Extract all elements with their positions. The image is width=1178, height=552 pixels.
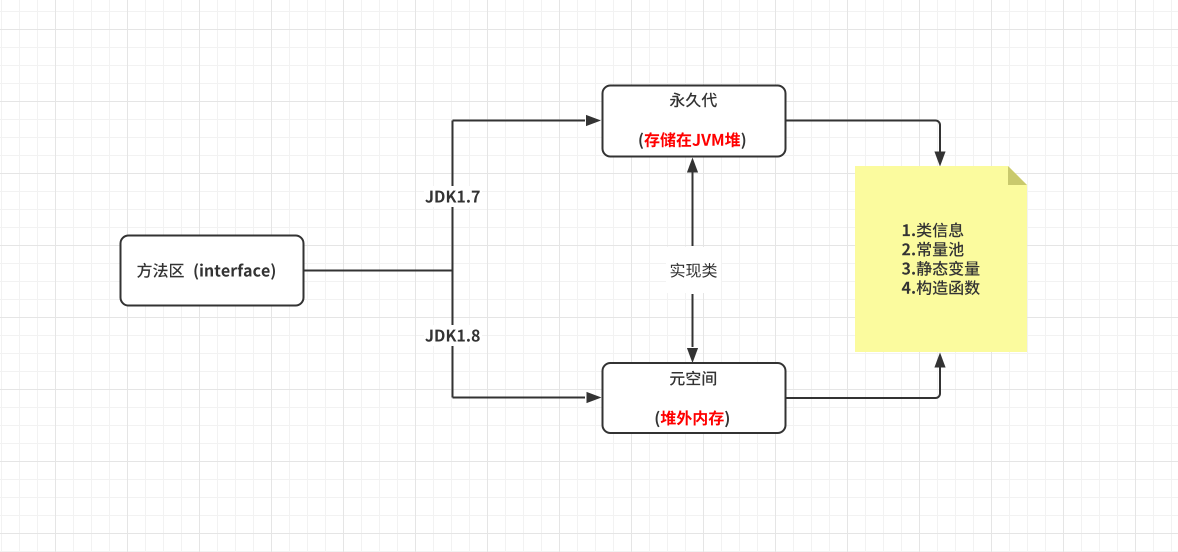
label JDK1.7 backing bbox=[424, 186, 482, 207]
arrowhead into 元空间 top (pointing down) bbox=[687, 348, 698, 363]
note sticky (yellow) body bbox=[855, 166, 1027, 352]
label 实现类 backing bbox=[666, 247, 721, 293]
arrowhead into note top bbox=[934, 152, 945, 167]
wire 实现类 lower segment (to 元空间 top) bbox=[692, 294, 694, 347]
label 元空间 bbox=[670, 371, 716, 386]
note fold corner (top-right flap) bbox=[1008, 166, 1027, 185]
wire JDK1.8 branch to 元空间 bbox=[453, 397, 586, 399]
label 方法区 (interface) bbox=[137, 263, 275, 280]
label 实现类 bbox=[671, 263, 717, 278]
arrowhead into 永久代 bottom (pointing up) bbox=[687, 158, 698, 173]
wire 方法区 right to JDK branch junction bbox=[303, 270, 453, 272]
label JDK1.8 backing bbox=[424, 325, 482, 346]
wire JDK branch vertical (junction) bbox=[452, 121, 454, 398]
label (存储在JVM堆) bbox=[639, 132, 745, 149]
label 永久代 bbox=[670, 93, 717, 108]
label (堆外内存) bbox=[656, 410, 729, 427]
label JDK1.7 bbox=[425, 191, 479, 203]
label note line 2.常量池 bbox=[902, 242, 964, 257]
box 元空间 bbox=[603, 363, 786, 433]
label note line 1.类信息 bbox=[903, 222, 964, 237]
label note line 4.构造函数 bbox=[902, 280, 980, 295]
box 永久代 bbox=[603, 86, 786, 157]
wire JDK1.7 branch to 永久代 bbox=[453, 120, 586, 122]
wire 元空间 right to note bottom (elbow) bbox=[787, 366, 941, 398]
label JDK1.8 bbox=[425, 330, 479, 342]
label note line 3.静态变量 bbox=[902, 261, 980, 276]
arrowhead into 永久代 left edge bbox=[586, 115, 601, 126]
arrowhead into note bottom bbox=[934, 353, 945, 368]
wire 永久代 right to note top (elbow) bbox=[787, 121, 941, 153]
arrowhead into 元空间 left edge bbox=[587, 392, 602, 403]
wire 实现类 upper segment (to 永久代 bottom) bbox=[692, 172, 694, 246]
box 方法区 (interface) bbox=[121, 236, 304, 306]
